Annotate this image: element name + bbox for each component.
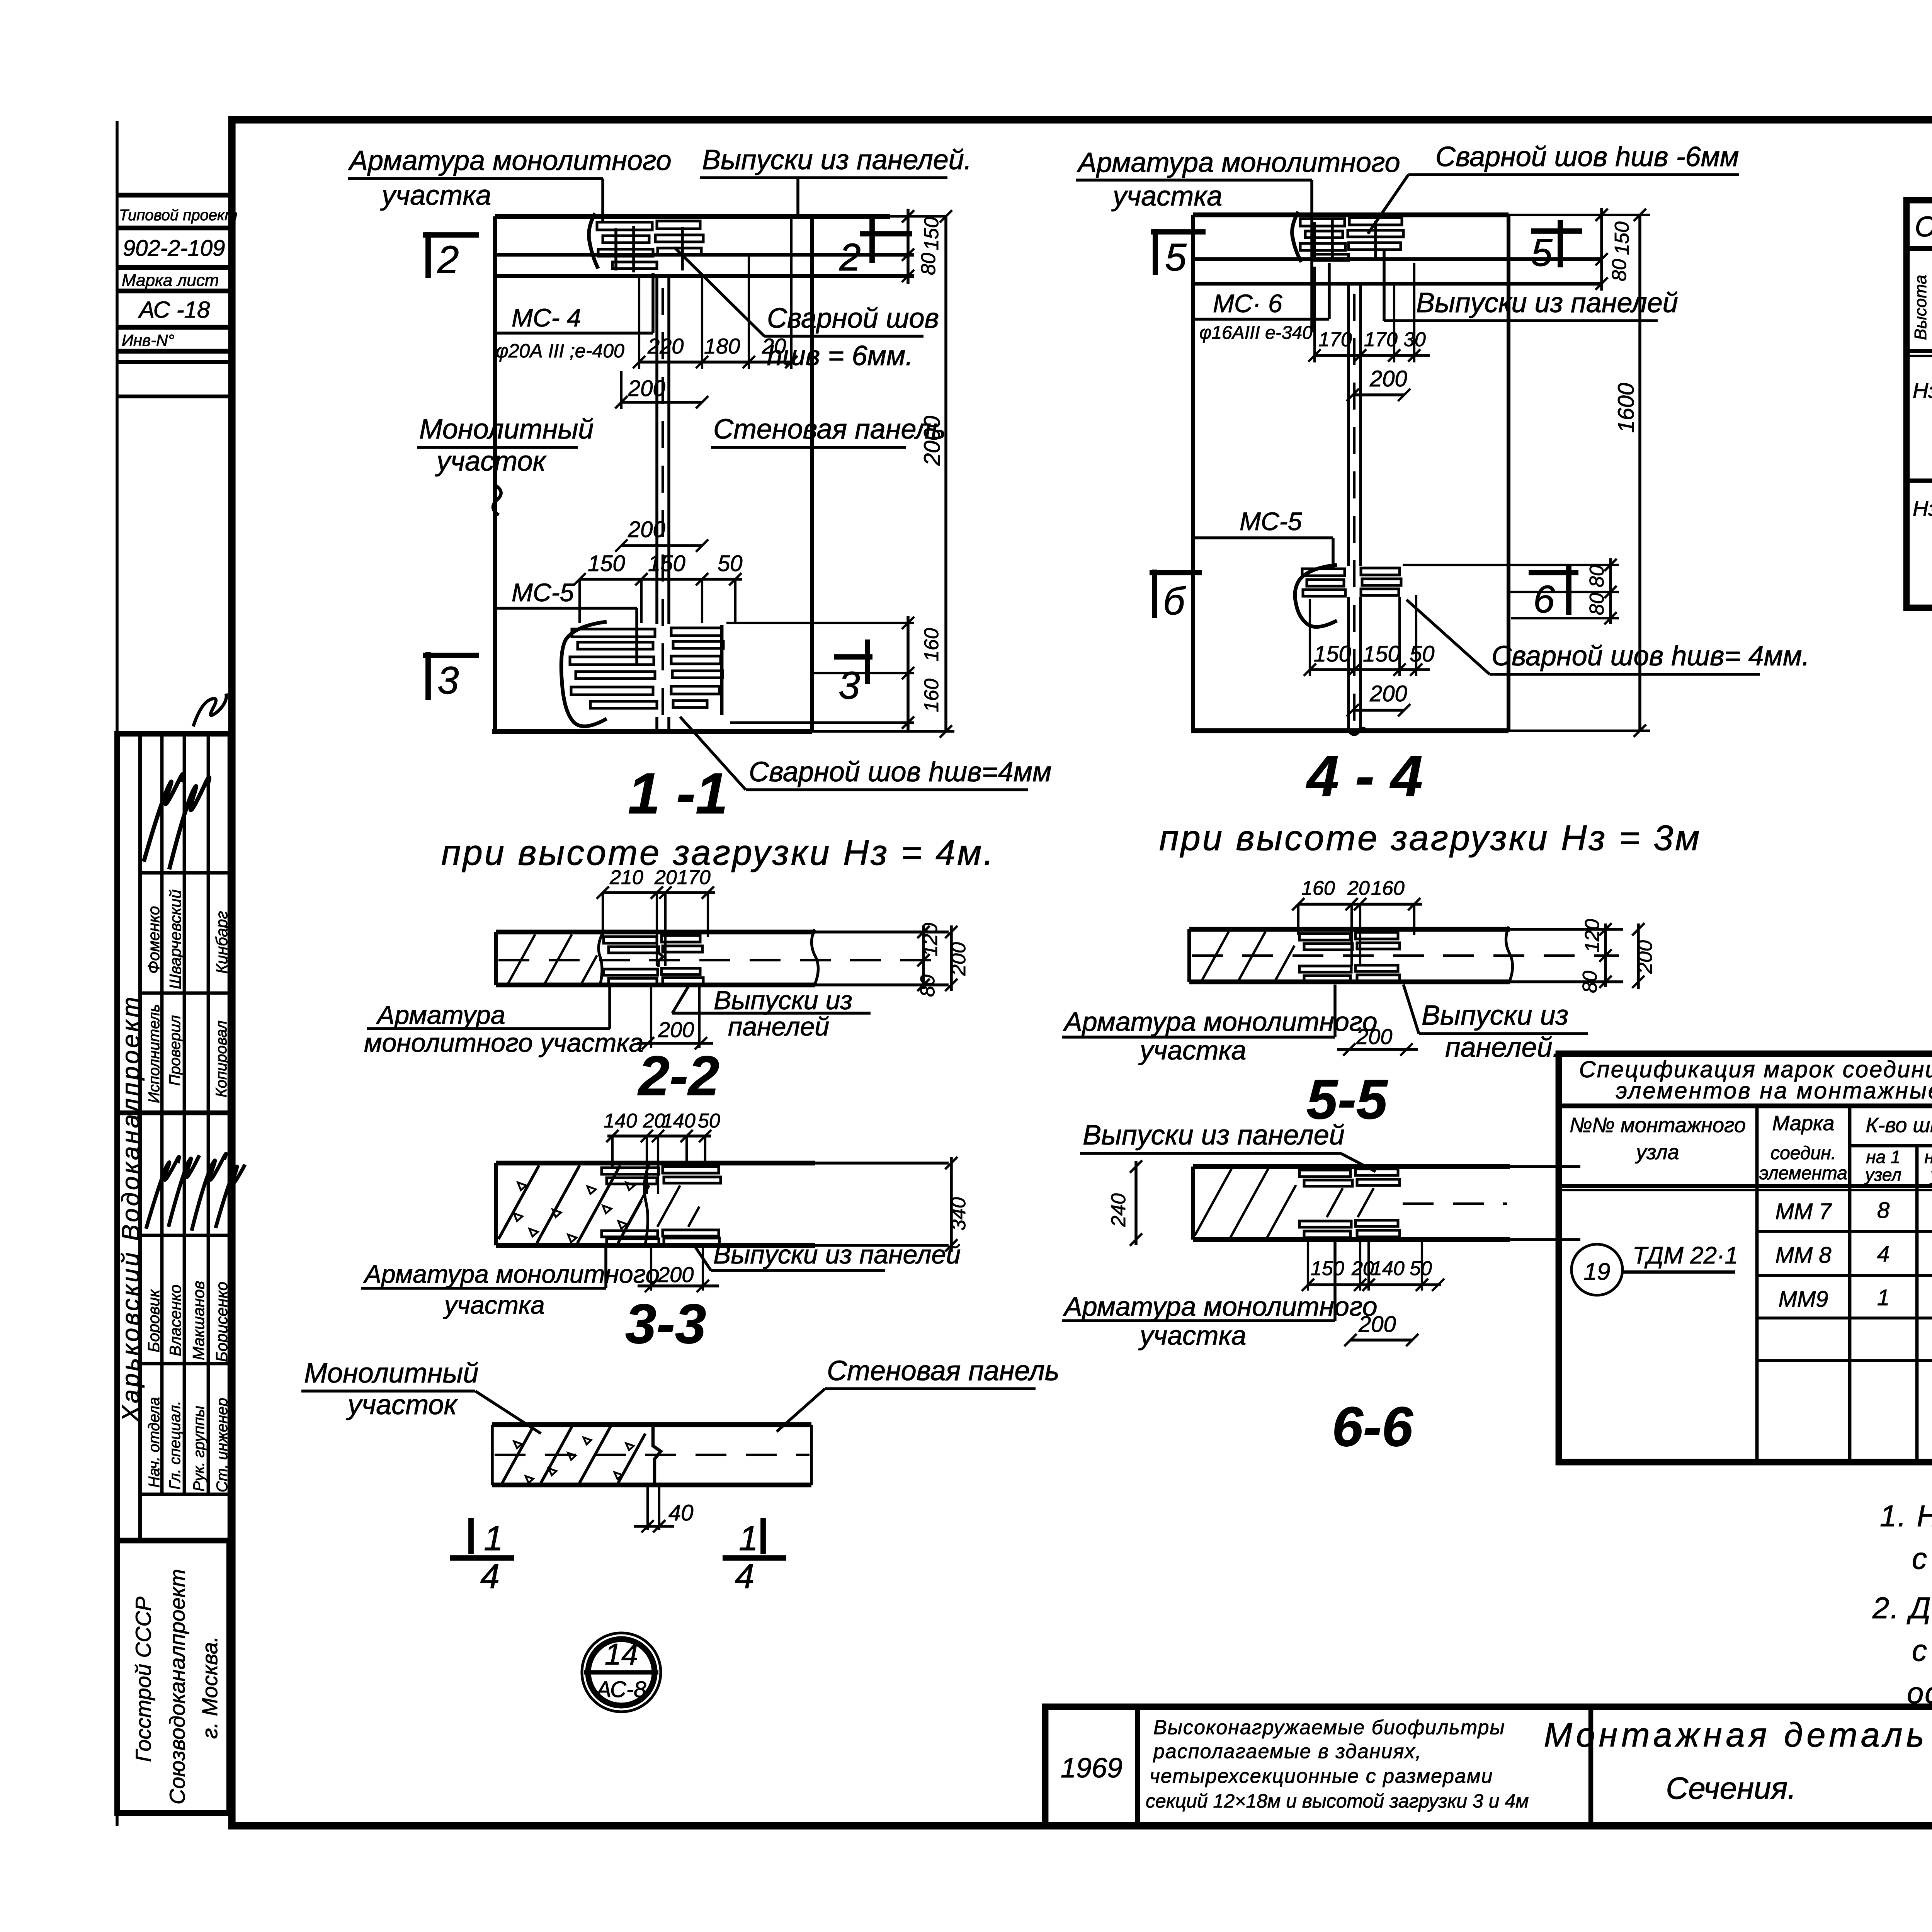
svg-text:при высоте загрузки Нз = 4м.: при высоте загрузки Нз = 4м. xyxy=(441,833,995,872)
svg-text:Кинбарг: Кинбарг xyxy=(213,911,231,974)
svg-text:4: 4 xyxy=(735,1557,754,1596)
section 4-4 wall band lines xyxy=(1193,257,1602,261)
svg-text:170: 170 xyxy=(1318,328,1352,351)
svg-text:170: 170 xyxy=(677,866,711,889)
svg-text:120: 120 xyxy=(1581,919,1604,952)
svg-text:2: 2 xyxy=(839,236,861,279)
svg-text:ММ9: ММ9 xyxy=(1779,1287,1828,1312)
svg-text:Марка лист: Марка лист xyxy=(122,271,219,290)
svg-text:20: 20 xyxy=(1347,877,1370,900)
svg-text:Нз=4м: Нз=4м xyxy=(1913,378,1932,403)
svg-text:200: 200 xyxy=(947,942,970,976)
detail concrete speckles xyxy=(514,1441,522,1448)
svg-text:АС-8: АС-8 xyxy=(595,1677,646,1702)
section 1-1 top joint rebar cluster xyxy=(589,213,598,269)
table спецификация марок frame xyxy=(1559,1054,1932,1462)
svg-text:160: 160 xyxy=(920,679,943,712)
svg-text:Арматура монолитного: Арматура монолитного xyxy=(1063,1007,1378,1037)
section 1-1 web centreline dashed xyxy=(662,288,664,730)
svg-text:50: 50 xyxy=(1410,641,1435,667)
svg-text:Выпуски из панелей: Выпуски из панелей xyxy=(1083,1120,1345,1151)
svg-text:Боровик: Боровик xyxy=(145,1289,163,1352)
svg-text:6-6: 6-6 xyxy=(1332,1395,1413,1458)
section 2-2 joint extension lines down xyxy=(650,986,652,1048)
section 3-3 slab extension xyxy=(815,1162,949,1165)
dim 240 (6-6) xyxy=(1134,1161,1138,1245)
section 1-1 wall band lines xyxy=(495,253,914,257)
section mark 5 right xyxy=(1531,228,1582,234)
svg-text:200: 200 xyxy=(1634,940,1656,974)
svg-text:1 -1: 1 -1 xyxy=(628,761,728,826)
dims right 150 80 (1-1) xyxy=(812,215,946,218)
section mark 5 left xyxy=(1151,229,1206,235)
svg-text:2000: 2000 xyxy=(920,416,945,466)
dim 340 (3-3) xyxy=(950,1157,953,1252)
svg-text:120: 120 xyxy=(919,923,942,956)
stamp circle 14/АС-8 xyxy=(582,1633,661,1712)
svg-text:4 - 4: 4 - 4 xyxy=(1306,743,1423,808)
leader выпуски (2-2) xyxy=(672,986,689,1013)
svg-text:40: 40 xyxy=(668,1500,694,1526)
signature: проверил signature xyxy=(169,777,209,869)
svg-text:50: 50 xyxy=(698,1110,720,1132)
svg-text:Высоконагружаемые биофильтры: Высоконагружаемые биофильтры xyxy=(1153,1716,1505,1739)
section mark 6 left xyxy=(1150,570,1202,575)
leader арматура (5-5) xyxy=(1333,985,1337,1037)
section 5-5 slab centreline dashed xyxy=(1192,954,1619,957)
svg-text:200: 200 xyxy=(1358,1312,1396,1337)
svg-text:основании серии 3. 900 -2: основании серии 3. 900 -2 вып. 1, 2 . xyxy=(1907,1676,1932,1710)
section 6-6 joint middle concrete xyxy=(1327,1188,1343,1217)
sidebar signature squiggle xyxy=(193,694,226,726)
svg-text:200: 200 xyxy=(628,517,665,542)
section 5-5 joint bars xyxy=(1299,934,1350,940)
section 1-1 panel outline xyxy=(495,214,890,219)
svg-text:Сварной шов hшв= 4мм.: Сварной шов hшв= 4мм. xyxy=(1492,641,1810,672)
sheet frame xyxy=(232,120,1932,1826)
svg-text:hшв = 6мм.: hшв = 6мм. xyxy=(767,340,913,371)
svg-text:6: 6 xyxy=(1533,578,1555,621)
svg-text:80: 80 xyxy=(1586,565,1608,587)
svg-text:240: 240 xyxy=(1107,1193,1130,1227)
svg-text:г. Москва.: г. Москва. xyxy=(197,1636,222,1739)
leader выпуски (4-4) xyxy=(1384,319,1414,322)
table спецификация стали frame xyxy=(1906,200,1932,608)
sheet outer margin line left xyxy=(116,121,119,1826)
svg-text:Монолитный: Монолитный xyxy=(304,1358,478,1389)
svg-text:Власенко: Власенко xyxy=(166,1284,184,1356)
svg-text:ММ 7: ММ 7 xyxy=(1776,1199,1833,1224)
svg-text:150: 150 xyxy=(1311,1257,1344,1280)
svg-text:150: 150 xyxy=(1314,641,1351,667)
svg-text:элементов на монтажные узлы: элементов на монтажные узлы xyxy=(1616,1078,1932,1104)
svg-text:3: 3 xyxy=(838,664,860,707)
svg-text:Выпуски из панелей.: Выпуски из панелей. xyxy=(702,145,972,175)
leader арматура (3-3) xyxy=(604,1248,607,1288)
leader to top joint (1-1) xyxy=(601,179,604,222)
svg-text:Арматура: Арматура xyxy=(376,1000,505,1030)
section 1-1 bottom joint rebar cluster xyxy=(572,629,655,637)
section 3-3 concrete speckles xyxy=(518,1182,526,1190)
svg-text:МС- 4: МС- 4 xyxy=(512,303,581,332)
svg-text:Типовой проект: Типовой проект xyxy=(119,207,238,224)
signature: гл специалист signature xyxy=(168,1155,199,1227)
dims right 120 80 200 (2-2) xyxy=(922,925,925,989)
table спецификация стали header bottom double line xyxy=(1906,349,1932,353)
svg-text:Госстрой СССР: Госстрой СССР xyxy=(131,1597,155,1762)
svg-text:150: 150 xyxy=(588,551,625,576)
svg-text:Фоменко: Фоменко xyxy=(145,906,163,974)
svg-text:Ст. инженер: Ст. инженер xyxy=(214,1398,231,1492)
svg-text:ТДМ 22·1: ТДМ 22·1 xyxy=(1633,1242,1738,1269)
svg-text:Арматура монолитного: Арматура монолитного xyxy=(363,1260,660,1288)
section mark 2 left xyxy=(423,232,479,238)
svg-text:180: 180 xyxy=(704,334,740,358)
svg-text:150: 150 xyxy=(648,551,685,576)
svg-text:210: 210 xyxy=(609,866,643,889)
signature: нач отдела signature xyxy=(146,1157,179,1229)
svg-text:80: 80 xyxy=(917,253,940,275)
svg-text:участка: участка xyxy=(1138,1320,1246,1350)
svg-text:ММ 8: ММ 8 xyxy=(1776,1243,1832,1268)
leader стеновая панель (detail) xyxy=(777,1389,825,1432)
svg-text:902-2-109: 902-2-109 xyxy=(123,236,225,261)
table спецификация марок к-во штук split xyxy=(1850,1144,1932,1148)
section 1-1 web edges xyxy=(655,276,658,624)
svg-text:Арматура монолитного: Арматура монолитного xyxy=(1063,1291,1378,1321)
svg-text:200: 200 xyxy=(1356,1024,1392,1049)
svg-text:Выпуски из: Выпуски из xyxy=(714,986,852,1015)
svg-text:19: 19 xyxy=(1584,1259,1611,1285)
svg-text:панелей.: панелей. xyxy=(1445,1032,1560,1063)
section 2-2 slab outline xyxy=(496,930,815,935)
svg-text:на все: на все xyxy=(1924,1147,1932,1167)
svg-text:Союзводоканалпроект: Союзводоканалпроект xyxy=(165,1569,189,1804)
svg-text:4: 4 xyxy=(1877,1242,1889,1267)
svg-text:Шварчевский: Шварчевский xyxy=(166,889,184,989)
svg-text:АС -18: АС -18 xyxy=(138,297,210,323)
node circle 19 (t3) xyxy=(1571,1244,1622,1295)
dims right 80 80 (4-4) xyxy=(1403,564,1619,566)
section 4-4 panel outline xyxy=(1193,213,1509,218)
leader выпуски (1-1) xyxy=(796,178,799,217)
svg-text:Сварной шов: Сварной шов xyxy=(767,303,939,334)
section 1-1 left edge break squiggle xyxy=(493,485,501,515)
svg-text:200: 200 xyxy=(1369,366,1407,391)
svg-text:элемента: элемента xyxy=(1759,1163,1847,1184)
leader монолитный (detail) xyxy=(475,1391,541,1434)
svg-text:3-3: 3-3 xyxy=(625,1293,706,1355)
section 2-2 slab centreline dashed xyxy=(498,959,943,961)
svg-text:140: 140 xyxy=(1371,1257,1405,1280)
svg-text:50: 50 xyxy=(718,551,743,576)
svg-text:Арматура монолитного: Арматура монолитного xyxy=(1077,147,1400,178)
signature table frame xyxy=(117,734,230,1541)
leader сварной шов 6мм (4-4) xyxy=(1368,175,1408,234)
section 3-3 hatch boundary xyxy=(645,1164,650,1244)
dim 2000 overall (1-1) xyxy=(944,216,947,731)
detail hatch concrete xyxy=(502,1427,533,1483)
svg-text:на 1: на 1 xyxy=(1866,1147,1900,1167)
svg-text:20: 20 xyxy=(654,866,677,889)
section 2-2 joint mid jog xyxy=(657,951,663,967)
dims right 150 80 (4-4) top xyxy=(1600,208,1603,291)
svg-text:Монтажная деталь 14.: Монтажная деталь 14. xyxy=(1544,1716,1932,1754)
signature: ст инженер signature xyxy=(216,1165,245,1228)
svg-text:МС· 6: МС· 6 xyxy=(1213,289,1282,318)
section 2-2 joint bars xyxy=(604,937,657,943)
section 4-4 web centreline dashed xyxy=(1353,294,1355,728)
svg-text:соедин.: соедин. xyxy=(1770,1143,1836,1163)
section 2-2 right break mark xyxy=(811,929,818,985)
leader арматура (6-6) xyxy=(1333,1241,1337,1321)
title block column lines xyxy=(1135,1707,1140,1826)
section 3-3 hatch concrete xyxy=(498,1165,539,1239)
section mark 1/4 left xyxy=(468,1518,474,1554)
svg-text:φ20А III ;е-400: φ20А III ;е-400 xyxy=(496,340,624,362)
svg-text:Гл. специал.: Гл. специал. xyxy=(167,1401,184,1490)
svg-text:Нач. отдела: Нач. отдела xyxy=(146,1397,163,1488)
detail slab outline xyxy=(492,1422,811,1427)
section 1-1 web below joint xyxy=(655,717,658,731)
svg-text:160: 160 xyxy=(1301,877,1335,900)
section 4-4 bottom joint outline xyxy=(1295,565,1337,627)
table спецификация марок row lines xyxy=(1757,1230,1932,1233)
svg-text:80: 80 xyxy=(1586,593,1608,615)
svg-text:8: 8 xyxy=(1877,1198,1889,1223)
section 1-1 bottom joint outline xyxy=(561,622,607,726)
svg-text:3: 3 xyxy=(437,659,459,702)
section 6-6 hatch xyxy=(1195,1169,1231,1236)
svg-text:200: 200 xyxy=(658,1017,694,1042)
svg-text:участок: участок xyxy=(435,446,547,477)
svg-text:2: 2 xyxy=(437,238,459,281)
svg-text:200: 200 xyxy=(628,376,665,401)
section 6-6 dashed centreline right xyxy=(1403,1202,1507,1205)
svg-text:узел: узел xyxy=(1864,1165,1901,1185)
svg-text:Монолитный: Монолитный xyxy=(419,414,594,445)
signature table column lines xyxy=(140,871,230,875)
svg-text:участка: участка xyxy=(443,1291,545,1319)
svg-text:200: 200 xyxy=(1369,681,1407,706)
svg-text:Выпуски из панелей: Выпуски из панелей xyxy=(713,1240,961,1269)
detail dim 40 xyxy=(646,1485,649,1530)
section 2-2 hatch xyxy=(508,934,535,983)
section mark 1/4 right xyxy=(760,1518,766,1554)
section 5-5 slab outline xyxy=(1189,927,1510,932)
svg-text:2-2: 2-2 xyxy=(637,1044,719,1107)
svg-text:четырехсекционные с размерами: четырехсекционные с размерами xyxy=(1150,1765,1493,1787)
section mark 3 right xyxy=(834,654,872,660)
detail slab centreline dashed xyxy=(495,1454,810,1456)
svg-text:б: б xyxy=(1163,580,1186,623)
svg-text:Борисенко: Борисенко xyxy=(213,1282,231,1362)
detail joggle joint xyxy=(653,1425,661,1485)
svg-text:Сварной шов hшв=4мм: Сварной шов hшв=4мм xyxy=(749,757,1051,787)
svg-text:Инв-N°: Инв-N° xyxy=(122,331,174,349)
svg-text:160: 160 xyxy=(920,628,943,662)
section 6-6 slab outline xyxy=(1193,1164,1510,1169)
svg-text:Сварной шов hшв -6мм: Сварной шов hшв -6мм xyxy=(1435,141,1739,172)
svg-text:140: 140 xyxy=(604,1110,637,1132)
svg-text:220: 220 xyxy=(647,334,684,358)
section 4-4 top joint rebar cluster xyxy=(1292,212,1301,262)
svg-text:Сечения.: Сечения. xyxy=(1666,1771,1796,1805)
svg-text:Выпуски из: Выпуски из xyxy=(1422,1000,1568,1031)
svg-text:80: 80 xyxy=(917,975,939,997)
section 1-1 bottom joint right edge xyxy=(720,625,724,715)
svg-text:при высоте загрузки Нз = 3м: при высоте загрузки Нз = 3м xyxy=(1159,818,1701,858)
section 5-5 slab extension xyxy=(1510,928,1623,931)
svg-text:1: 1 xyxy=(739,1519,758,1558)
svg-text:170: 170 xyxy=(1364,328,1398,351)
sidebar stamp box top line xyxy=(117,193,232,198)
dims right 120 80 200 (5-5) xyxy=(1604,923,1607,987)
svg-text:Марка: Марка xyxy=(1772,1112,1834,1135)
table спецификация марок column lines xyxy=(1755,1106,1759,1462)
section 6-6 slab extension xyxy=(1510,1165,1580,1168)
svg-text:340: 340 xyxy=(947,1197,970,1231)
svg-text:1600: 1600 xyxy=(1614,383,1639,433)
section 3-3 joint middle concrete xyxy=(626,1185,649,1227)
svg-text:Стеновая панель: Стеновая панель xyxy=(827,1355,1060,1386)
dim 1600 overall (4-4) xyxy=(1509,214,1650,216)
svg-text:Стеновая панель: Стеновая панель xyxy=(713,414,946,445)
svg-text:Рук. группы: Рук. группы xyxy=(190,1406,207,1492)
svg-text:5: 5 xyxy=(1165,236,1187,279)
leader сварной шов 6мм (1-1) xyxy=(674,247,764,336)
svg-text:150: 150 xyxy=(1611,221,1633,255)
leader МС-4 xyxy=(651,273,655,333)
svg-text:панелей: панелей xyxy=(728,1012,829,1041)
signature: исполнитель signature xyxy=(144,774,183,862)
leader сварной шов 4мм (4-4) xyxy=(1406,600,1490,674)
section 2-2 slab extension xyxy=(815,930,949,934)
section 6-6 joint bars xyxy=(1299,1170,1350,1177)
svg-text:монолитного участка: монолитного участка xyxy=(364,1028,643,1058)
leader арматура (4-4) xyxy=(1310,180,1313,332)
svg-text:с листами: АС- 8 , АС-9 , АС·: с листами: АС- 8 , АС-9 , АС·10 . xyxy=(1912,1541,1932,1575)
svg-text:секций 12×18м и высотой загруз: секций 12×18м и высотой загрузки 3 и 4м xyxy=(1146,1790,1529,1812)
svg-text:располагаемые в зданиях,: располагаемые в зданиях, xyxy=(1153,1740,1422,1763)
svg-text:4: 4 xyxy=(480,1557,500,1596)
svg-text:140: 140 xyxy=(662,1110,696,1132)
svg-text:1969: 1969 xyxy=(1061,1753,1122,1784)
title block frame xyxy=(1045,1707,1932,1826)
svg-text:5: 5 xyxy=(1531,231,1553,274)
leader выпуски (6-6) xyxy=(1341,1153,1376,1172)
svg-text:150: 150 xyxy=(1363,641,1400,667)
table спецификация марок header bottom double xyxy=(1559,1184,1932,1188)
leader выпуски (5-5) xyxy=(1403,985,1419,1034)
section mark 6 right xyxy=(1529,570,1578,575)
section 5-5 hatch xyxy=(1202,932,1229,980)
svg-text:участка: участка xyxy=(380,180,491,211)
organisation box xyxy=(117,1541,229,1813)
svg-text:участок: участок xyxy=(346,1389,458,1420)
svg-text:80: 80 xyxy=(1608,259,1631,281)
signature: рук группы signature xyxy=(192,1154,226,1231)
svg-text:φ16АIII е-340: φ16АIII е-340 xyxy=(1199,323,1313,343)
svg-text:МС-5: МС-5 xyxy=(1240,507,1302,536)
leader сварной шов 4мм (1-1) xyxy=(680,717,746,790)
svg-text:участка: участка xyxy=(1138,1035,1246,1065)
section 4-4 web below joint xyxy=(1347,597,1350,731)
svg-text:2. Детали стыков консольных: 2. Детали стыков консольных стеновых пан… xyxy=(1872,1591,1932,1625)
section 3-3 slab outline xyxy=(496,1161,815,1166)
section 3-3 joint bars xyxy=(602,1168,659,1174)
svg-text:Высота: Высота xyxy=(1911,275,1930,340)
svg-text:Спецификация стали на 1штуку к: Спецификация стали на 1штуку каждой марк… xyxy=(1915,211,1932,243)
section 4-4 web edges xyxy=(1347,284,1350,566)
leader арматура (2-2) xyxy=(608,986,611,1029)
svg-text:14: 14 xyxy=(605,1637,638,1671)
svg-text:узла: узла xyxy=(1634,1141,1679,1164)
svg-text:Проверил: Проверил xyxy=(167,1015,184,1086)
section mark 3 left xyxy=(423,653,479,658)
section 4-4 bottom break squiggle xyxy=(1348,728,1366,735)
dims right 160 160 (1-1) xyxy=(726,622,914,624)
svg-text:Макшанов: Макшанов xyxy=(189,1281,207,1360)
section mark 2 right xyxy=(860,231,912,236)
svg-text:80: 80 xyxy=(1579,971,1601,993)
svg-text:200: 200 xyxy=(657,1262,694,1287)
svg-text:1: 1 xyxy=(484,1519,503,1558)
svg-text:с монолитными участками р: с монолитными участками разработаны на xyxy=(1912,1633,1932,1667)
svg-text:Исполнитель: Исполнитель xyxy=(146,1004,163,1103)
svg-text:1. Настоящий чертеж рассма: 1. Настоящий чертеж рассматривать совмес… xyxy=(1880,1499,1932,1533)
section 5-5 right break mark xyxy=(1506,927,1512,983)
leader выпуски (3-3) xyxy=(696,1247,711,1270)
svg-text:МС-5: МС-5 xyxy=(512,578,574,607)
svg-text:Нз=3м: Нз=3м xyxy=(1913,496,1932,520)
svg-text:К-во штук: К-во штук xyxy=(1866,1114,1932,1137)
svg-text:Копировал: Копировал xyxy=(213,1020,230,1097)
svg-text:160: 160 xyxy=(1371,877,1405,900)
section 2-2 hatch boundary xyxy=(599,933,603,983)
signature table org cell line xyxy=(138,734,142,1541)
svg-text:участка: участка xyxy=(1111,181,1222,212)
svg-text:1: 1 xyxy=(1877,1285,1889,1310)
svg-text:Арматура монолитного: Арматура монолитного xyxy=(348,145,672,176)
section 4-4 bottom joint rebar cluster xyxy=(1302,569,1345,576)
svg-text:№№ монтажного: №№ монтажного xyxy=(1570,1114,1746,1137)
svg-text:Харьковский Водоканалпроект: Харьковский Водоканалпроект xyxy=(117,995,145,1423)
signature table row lines xyxy=(160,734,164,1494)
